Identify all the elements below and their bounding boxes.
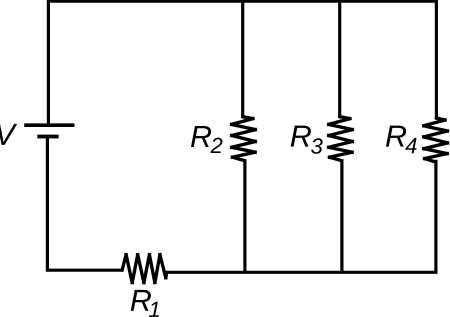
wire: R2 branch bottom lead bbox=[243, 160, 246, 272]
wire: battery negative plate down to bottom-left corner, bottom rail to R1 left lead bbox=[47, 137, 122, 271]
wire: R4 bottom lead down to bottom-right corner, bottom rail to R1 right lead bbox=[166, 160, 436, 272]
wire: R3 branch top lead bbox=[338, 0, 341, 118]
battery V: short negative plate bbox=[37, 135, 58, 139]
battery V: long positive plate bbox=[24, 123, 74, 127]
wire: R2 branch top lead bbox=[241, 0, 244, 118]
resistor R2 zigzag bbox=[230, 115, 258, 163]
resistor R1 zigzag bbox=[120, 253, 168, 285]
resistor R4 zigzag bbox=[422, 116, 450, 164]
label R4 bbox=[386, 126, 417, 154]
label V bbox=[0, 124, 17, 145]
wire: left riser from battery, top rail, drop to R4 bbox=[48, 1, 436, 124]
label R1 bbox=[131, 290, 159, 317]
wire: R3 branch bottom lead bbox=[340, 160, 343, 272]
resistor R3 zigzag bbox=[327, 115, 355, 163]
label R2 bbox=[191, 126, 223, 153]
label R3 bbox=[291, 126, 323, 154]
